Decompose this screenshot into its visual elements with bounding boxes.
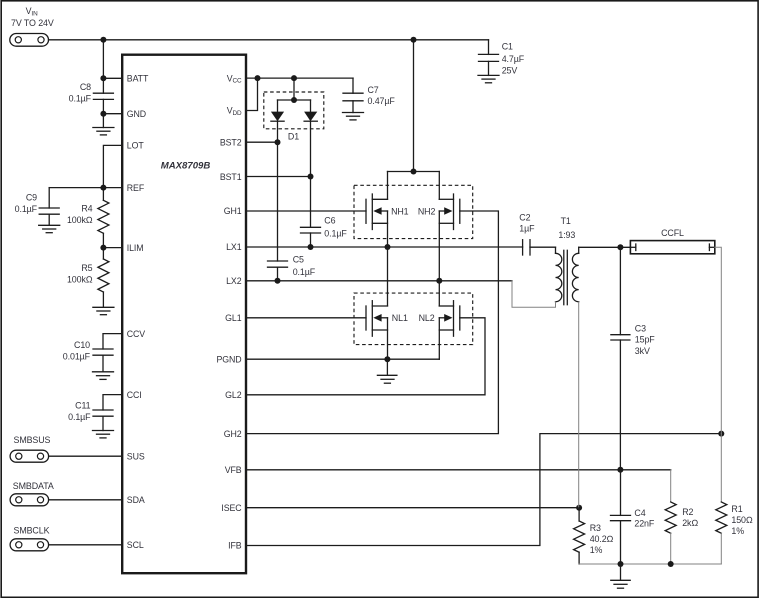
connector J1 VIN [10,34,49,47]
wire BATT pin stub [103,77,122,79]
capacitor C11 [68,400,113,430]
svg-text:D1: D1 [288,132,299,142]
wire VFB line [246,469,671,471]
node junction ISEC [576,505,582,511]
svg-text:1%: 1% [731,526,744,536]
svg-text:40.2Ω: 40.2Ω [590,534,614,544]
svg-text:0.1µF: 0.1µF [324,228,347,238]
wire primary bottom return to LX2 [512,281,556,308]
wire BST2 down to C5 [277,142,279,261]
svg-text:CCI: CCI [127,390,142,400]
transformer T1 core [564,250,568,304]
svg-text:100kΩ: 100kΩ [67,215,93,225]
node junction GND [100,111,106,117]
node junction BST2 [275,139,281,145]
wire BST2 stub [246,141,278,143]
svg-text:C5: C5 [293,254,304,264]
node junction D1 anode split [291,97,297,103]
wire CCV to C10 [103,334,122,349]
svg-text:ILIM: ILIM [127,243,144,253]
svg-text:R2: R2 [682,507,693,517]
capacitor C8 [69,78,114,113]
svg-text:NH1: NH1 [391,206,409,216]
svg-text:NL2: NL2 [419,313,435,323]
resistor R1 150 [716,434,753,564]
wire SMBDATA to SDA [49,499,123,501]
wire IFB route [246,434,721,546]
svg-text:BST2: BST2 [220,137,242,147]
transistor Q3 NL1 [366,301,408,360]
svg-text:C9: C9 [26,193,37,203]
wire CCFL low side to IFB node [715,247,722,433]
node junction PGND [384,356,390,362]
node junction ILIM [100,245,106,251]
svg-text:C11: C11 [75,400,90,410]
diode D1 right half [304,100,317,177]
wire secondary bottom to ISEC [578,302,580,508]
svg-text:IFB: IFB [228,541,242,551]
wire VDD elbow [246,78,258,110]
node junction IFB/R1 [718,431,724,437]
svg-text:3kV: 3kV [635,346,650,356]
node junction top rail [411,37,417,43]
svg-text:C8: C8 [80,82,91,92]
svg-text:C10: C10 [74,340,90,350]
node VIN label 7V TO 24V [11,6,54,28]
svg-text:GL2: GL2 [225,390,242,400]
svg-text:LX1: LX1 [226,242,242,252]
svg-text:C3: C3 [635,323,646,333]
resistor R2 2k [665,502,698,564]
capacitor C5 [268,254,316,281]
wire VFB corner down to R2 [670,470,672,502]
svg-text:0.47µF: 0.47µF [368,96,396,106]
wire PGND line [246,358,439,360]
diode D1 left half [271,100,284,142]
node junction BST1 [308,174,314,180]
svg-text:0.1µF: 0.1µF [69,93,92,103]
connector J4 SMBCLK [10,526,49,551]
wire ILIM pin stub [103,247,122,249]
svg-text:R5: R5 [81,263,92,273]
wire SMBCLK to SCL [49,544,123,546]
svg-text:0.01µF: 0.01µF [63,351,91,361]
capacitor C6 [301,216,348,247]
svg-text:SUS: SUS [127,451,145,461]
node junction C5/LX2 [275,278,281,284]
svg-text:0.1µF: 0.1µF [293,267,316,277]
svg-text:C6: C6 [324,216,335,226]
node junction VFB/C3/C4 [617,467,623,473]
svg-text:1%: 1% [590,545,603,555]
svg-text:SMBCLK: SMBCLK [14,526,50,536]
capacitor C2 [519,212,555,255]
transformer T1 secondary [572,247,578,301]
ground below C9 [39,214,60,233]
svg-text:C4: C4 [634,508,645,518]
wire VCC line [246,77,353,79]
wire GL2 to NL2 gate [246,318,485,395]
svg-text:NL1: NL1 [392,313,408,323]
capacitor C1 [479,40,525,76]
node junction secondary/C3/CCFL [617,244,623,250]
ground below R5 [93,307,114,314]
wire VIN to BATT [102,40,104,79]
svg-text:22nF: 22nF [634,518,655,528]
svg-text:100kΩ: 100kΩ [67,275,93,285]
svg-text:SMBSUS: SMBSUS [14,435,51,445]
transformer T1 primary [556,216,576,302]
ground below C8 [93,114,114,135]
svg-text:SMBDATA: SMBDATA [13,481,54,491]
svg-text:R1: R1 [731,504,742,514]
svg-text:T1: T1 [561,216,571,226]
wire GL1 to NL1 gate [246,317,366,319]
node junction NH drains [411,169,417,175]
wire GH1 to NH1 gate [246,210,366,212]
wire VCC to D1 anode [293,78,295,100]
svg-text:15pF: 15pF [635,335,656,345]
ground below C1 [478,75,499,82]
svg-text:CCV: CCV [127,329,146,339]
node junction NH2 source/LX2 [436,278,442,284]
ground below C7 [343,113,364,120]
svg-text:R3: R3 [590,523,601,533]
svg-text:SCL: SCL [127,540,144,550]
resistor R4 100k [67,188,109,248]
transistor NH pair dashed box [354,185,473,238]
wire GND pin stub [103,113,122,115]
svg-text:NH2: NH2 [418,206,436,216]
svg-text:R4: R4 [81,204,92,214]
svg-text:MAX8709B: MAX8709B [161,161,211,172]
svg-text:150Ω: 150Ω [731,515,753,525]
wire ground rail [579,563,721,565]
wire D1 anode bridge [278,99,311,101]
svg-text:C2: C2 [519,212,530,222]
capacitor C9 [15,188,60,215]
resistor R5 100k [67,248,109,308]
wire BST1 stub [246,176,311,178]
node junction NH1 source/LX1 [385,244,391,250]
wire secondary top to CCFL [579,246,631,248]
ground below rail [611,564,630,588]
capacitor C10 [63,340,113,372]
node junction VCC/VDD [255,75,261,81]
connector J2 SMBSUS [10,435,50,462]
lamp CCFL [630,228,714,254]
ground below C11 [93,431,114,438]
svg-text:VFB: VFB [225,465,242,475]
ground below C10 [93,372,114,380]
diode D1 dual package box [264,92,324,142]
node junction VIN/BATT [100,37,106,43]
svg-text:REF: REF [127,183,145,193]
capacitor C3 [611,247,655,469]
svg-text:BATT: BATT [127,74,149,84]
svg-text:1:93: 1:93 [558,230,575,240]
svg-text:PGND: PGND [216,354,241,364]
svg-text:BST1: BST1 [220,172,242,182]
svg-text:ISEC: ISEC [221,503,242,513]
svg-text:C7: C7 [368,85,379,95]
transistor Q4 NL2 [419,301,460,360]
resistor R3 40.2 [574,508,614,564]
wire LX1 line to C2 [246,246,523,248]
capacitor C4 [611,470,655,564]
node junction BATT [100,75,106,81]
transistor Q2 NH2 [418,172,460,306]
node junction REF [100,185,106,191]
connector J3 SMBDATA [10,481,54,506]
node junction C6/LX1 [308,244,314,250]
transistor Q1 NH1 [366,172,409,306]
wire REF line [49,187,122,189]
svg-text:CCFL: CCFL [661,228,684,238]
svg-text:2kΩ: 2kΩ [682,518,698,528]
node junction VCC/D1 [291,75,297,81]
svg-text:25V: 25V [502,66,518,76]
svg-text:0.1µF: 0.1µF [15,204,38,214]
svg-text:LOT: LOT [127,141,145,151]
wire GH2 to NH2 gate [246,211,498,434]
svg-text:LX2: LX2 [226,276,242,286]
wire BST1 down to C6 [310,177,312,228]
wire LOT to REF node [103,145,122,187]
wire NH drain bridge [388,171,440,173]
svg-text:C1: C1 [502,42,513,52]
svg-text:GL1: GL1 [225,313,242,323]
wire LX2 line [246,280,512,282]
wire VIN to NH drains [413,40,415,172]
node junction R2/rail [668,561,674,567]
wire ISEC line [246,507,579,509]
wire SMBSUS to SUS [49,455,123,457]
wire VIN top rail [49,39,489,41]
svg-text:7V TO 24V: 7V TO 24V [11,18,54,28]
svg-text:1µF: 1µF [519,224,535,234]
node junction C4/rail [618,561,624,567]
transistor NL pair dashed box [354,293,473,345]
wire CCI to C11 [103,395,122,410]
op-amp U1 MAX8709B IC body [122,55,246,574]
capacitor C7 [343,78,395,112]
svg-text:0.1µF: 0.1µF [68,412,91,422]
svg-text:GH1: GH1 [224,206,242,216]
svg-text:GH2: GH2 [224,429,242,439]
svg-text:SDA: SDA [127,495,145,505]
svg-text:GND: GND [127,109,146,119]
svg-text:4.7µF: 4.7µF [502,54,525,64]
ground at PGND [377,359,397,383]
